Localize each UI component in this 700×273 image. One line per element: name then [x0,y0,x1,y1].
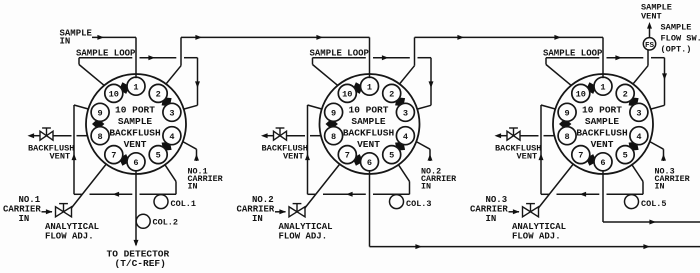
svg-text:10: 10 [342,90,352,100]
svg-text:COL.2: COL.2 [153,217,179,227]
wire: analytical valve to port 7 (V1) [71,164,106,208]
svg-text:BACKFLUSH: BACKFLUSH [109,128,161,139]
flow arrow sample in [97,35,104,40]
svg-text:8: 8 [565,132,570,142]
svg-text:VENT: VENT [124,139,147,150]
analytical flow adj valve (V3) [523,207,539,217]
wire: carrier in to analytical valve (V3) [509,211,520,213]
port 10 of V1 [105,84,123,102]
label NO.2 CARRIER IN (right of V2) [421,166,457,191]
column COL.2 symbol [136,214,150,228]
port 3 of V1 [163,103,181,121]
svg-text:1: 1 [133,82,138,92]
wire: column/backflush return run (V1) [74,193,176,195]
svg-text:FLOW ADJ.: FLOW ADJ. [512,232,561,242]
wire: carrier in to analytical valve (V2) [275,211,286,213]
svg-text:6: 6 [133,158,138,168]
port 7 of V1 [105,146,123,164]
svg-text:VENT: VENT [50,151,71,161]
svg-text:CARRIER: CARRIER [237,204,275,214]
port 2 of V3 [616,84,634,102]
svg-text:COL.5: COL.5 [641,199,667,209]
svg-text:4: 4 [169,132,174,142]
wire: carrier stub into port 4 (V2) [416,142,430,161]
rotor channel wedges V1 (ports 10-1, 2-3, 4-5, 6-7, 8-9) [92,82,172,166]
backflush vent valve (V1) [40,131,53,140]
svg-text:SAMPLE: SAMPLE [351,116,386,127]
sample flow switch FS (U-FS) [643,38,655,50]
svg-text:IN: IN [252,214,263,224]
wire: column/backflush return run (V2) [308,193,410,195]
label SAMPLE IN [60,28,93,46]
svg-text:8: 8 [98,132,103,142]
wire: carrier in to analytical valve (V1) [42,211,53,213]
flow arrow on sample loop (V1) [148,55,155,60]
flow arrow to detector [134,240,139,247]
flow arrow transfer line V2-V3 (second) [554,35,561,40]
wire: sample loop top run (V2) [313,57,432,59]
svg-text:ANALYTICAL: ANALYTICAL [45,222,99,232]
svg-text:FLOW ADJ.: FLOW ADJ. [45,232,94,242]
svg-text:SAMPLE LOOP: SAMPLE LOOP [543,48,603,58]
label NO.3 CARRIER IN (lower left of V3) [470,195,508,224]
svg-text:8: 8 [331,132,336,142]
svg-text:NO.3: NO.3 [486,195,508,205]
wire: port 2 riser to transfer line (V1) [166,37,181,84]
port 9 of V1 [91,103,109,121]
port 5 of V3 [616,146,634,164]
rotor channel wedges V3 (ports 10-1, 2-3, 4-5, 6-7, 8-9) [559,82,639,166]
analytical flow adj valve (V2) [289,207,305,217]
svg-text:BACKFLUSH: BACKFLUSH [576,128,628,139]
flow arrow into port 3 (V1) [195,81,200,88]
flow arrow to backflush vent (V2) [261,133,268,138]
flow arrow transfer line V1-V2 (first) [195,35,202,40]
wire: sample loop left leg from port 10 (V1) [79,58,104,86]
svg-text:SAMPLE: SAMPLE [118,116,153,127]
port 7 of V2 [338,146,356,164]
svg-text:SAMPLE: SAMPLE [585,116,620,127]
port 1 of V2 [361,77,379,95]
flow arrow on sample loop (V3) [615,55,622,60]
svg-text:5: 5 [389,151,394,161]
valve V1 label text [109,105,161,151]
port 5 of V1 [149,146,167,164]
rotor channel wedges V2 (ports 10-1, 2-3, 4-5, 6-7, 8-9) [326,82,406,166]
svg-text:4: 4 [403,132,408,142]
wire: FS up to sample vent [649,26,651,38]
wire: sample loop left leg from port 10 (V2) [313,58,338,86]
flow arrow carrier into port 4 (V1) [194,154,199,161]
flow arrow up left riser (V2) [305,154,310,161]
svg-text:2: 2 [623,90,628,100]
svg-text:(T/C-REF): (T/C-REF) [115,258,166,269]
svg-text:NO.1: NO.1 [19,195,41,205]
svg-text:5: 5 [623,151,628,161]
label BACKFLUSH VENT (V2) [262,143,308,161]
flow arrow transfer line V2-V3 (first) [457,35,464,40]
port 4 of V3 [630,127,648,145]
port 6 of V1 [127,153,145,171]
wire: V2 port 6 outlet run [370,171,700,247]
wire: left riser to port 9 (V3) [541,105,555,194]
svg-text:FS: FS [645,42,655,50]
flow arrow to backflush vent (V1) [28,133,35,138]
svg-text:SAMPLE LOOP: SAMPLE LOOP [76,48,136,58]
port 3 of V2 [396,103,414,121]
flow arrow up left riser (V3) [539,154,544,161]
wire: loop drop into port 3 (V2) [417,58,431,109]
label NO.2 CARRIER IN (lower left of V2) [237,195,275,224]
valve V2 label text [343,105,395,151]
wire: transfer line V1 to V2 [181,36,370,38]
svg-text:ANALYTICAL: ANALYTICAL [279,222,333,232]
label TO DETECTOR (T/C-REF) [107,248,170,269]
port 2 of V1 [149,84,167,102]
column COL.5 symbol [625,195,639,209]
svg-text:1: 1 [367,82,372,92]
wire: carrier stub into port 4 (V3) [650,142,664,161]
flow arrow V3 outlet [649,220,656,225]
svg-text:1: 1 [600,82,605,92]
port 10 of V3 [572,84,590,102]
wire: feed down into port 1 (V2) [369,37,371,78]
label SAMPLE FLOW SW. (OPT.) [661,22,700,54]
svg-text:9: 9 [98,108,103,118]
flow arrow to backflush vent (V3) [495,133,502,138]
wire: loop drop into port 3 (V1) [184,58,198,109]
label NO.1 CARRIER IN (right of V1) [188,166,224,191]
svg-text:IN: IN [60,36,71,46]
svg-text:SAMPLE LOOP: SAMPLE LOOP [310,48,370,58]
wire: feed down into port 1 (V3) [602,37,604,78]
svg-text:10 PORT: 10 PORT [349,105,389,116]
svg-text:VENT: VENT [641,12,662,22]
flow arrow carrier into port 4 (V3) [661,154,666,161]
port 8 of V1 [91,127,109,145]
svg-text:ANALYTICAL: ANALYTICAL [512,222,566,232]
svg-text:CARRIER: CARRIER [470,204,508,214]
column COL.3 symbol [390,195,404,209]
flow arrow on return run (V1) [113,192,120,197]
flow arrow carrier into port 4 (V2) [428,154,433,161]
svg-text:7: 7 [578,151,583,161]
svg-text:BACKFLUSH: BACKFLUSH [343,128,395,139]
wire: feed down into port 1 (V1) [135,37,137,78]
wire: analytical valve to port 7 (V3) [538,164,573,208]
port 7 of V3 [572,146,590,164]
flow arrow on return run (V2) [346,192,353,197]
wire: port 8 to backflush vent valve (V2) [267,135,321,137]
label ANALYTICAL FLOW ADJ. (V3) [512,222,566,242]
valve V3 label text [576,105,628,151]
flow arrow into port 3 (V2) [429,81,434,88]
wire: sample loop top run (V3) [546,57,665,59]
flow arrow on sample loop (V2) [382,55,389,60]
label SAMPLE VENT [641,3,672,22]
wire: column/backflush return run (V3) [541,193,643,195]
wire: port 2 riser to transfer line (V2) [400,37,415,84]
flow arrow into analytical valve (V2) [279,209,286,214]
svg-text:IN: IN [421,182,431,192]
svg-text:IN: IN [486,214,497,224]
port 6 of V3 [594,153,612,171]
flow arrow on return run (V3) [580,192,587,197]
svg-text:(OPT.): (OPT.) [661,44,692,54]
svg-text:COL.3: COL.3 [406,199,432,209]
wire: V3 port 6 outlet run [603,171,700,222]
svg-text:10: 10 [576,90,586,100]
port 6 of V2 [361,153,379,171]
flow arrow into port 3 (V3) [662,73,667,80]
svg-text:VENT: VENT [283,151,304,161]
svg-text:10: 10 [109,90,119,100]
port 8 of V3 [558,127,576,145]
column COL.1 symbol [154,195,168,209]
svg-text:9: 9 [331,108,336,118]
flow arrow sample vent [647,22,652,29]
svg-text:6: 6 [367,158,372,168]
port 1 of V1 [127,77,145,95]
wire: carrier stub into port 4 (V1) [183,142,197,161]
flow arrow V2 outlet (second) [643,244,650,249]
svg-text:10 PORT: 10 PORT [115,105,155,116]
svg-text:NO.2: NO.2 [252,195,274,205]
svg-text:10 PORT: 10 PORT [582,105,622,116]
svg-text:COL.1: COL.1 [171,199,197,209]
port 10 of V2 [338,84,356,102]
svg-text:SAMPLE: SAMPLE [661,22,692,32]
wire: sample loop top run (V1) [79,57,198,59]
wire: sample in line to V1 port 1 [92,36,136,38]
flow arrow up left riser (V1) [72,154,77,161]
port 3 of V3 [630,103,648,121]
valve V1 rotor body (10-port circle) [86,74,186,174]
port 9 of V3 [558,103,576,121]
svg-text:7: 7 [345,151,350,161]
wire: loop drop into port 3 (V3) [651,58,665,109]
wire: port 8 to backflush vent valve (V1) [34,135,88,137]
svg-text:CARRIER: CARRIER [3,204,41,214]
label NO.1 CARRIER IN (lower left of V1) [3,195,41,224]
svg-text:7: 7 [111,151,116,161]
svg-text:VENT: VENT [357,139,380,150]
wire: port 5 to column line (V2) [399,165,410,195]
flow arrow transfer line V1-V2 (second) [316,35,323,40]
backflush vent valve (V2) [274,131,287,140]
wire: port 8 to backflush vent valve (V3) [501,135,555,137]
analytical flow adj valve (V1) [56,207,72,217]
port 4 of V1 [163,127,181,145]
flow arrow into analytical valve (V1) [46,209,53,214]
port 5 of V2 [383,146,401,164]
wire: port 2 riser to sample flow switch (V3) [633,50,648,84]
flow arrow into analytical valve (V3) [513,209,520,214]
port 1 of V3 [594,77,612,95]
wire: transfer line V2 to V3 [415,36,604,38]
wire: analytical valve to port 7 (V2) [305,164,340,208]
svg-text:6: 6 [600,158,605,168]
label BACKFLUSH VENT (V1) [28,143,74,161]
svg-text:IN: IN [188,182,198,192]
svg-text:3: 3 [636,108,641,118]
port 4 of V2 [396,127,414,145]
wire: V1 port 6 to detector [135,171,137,245]
svg-text:VENT: VENT [517,151,538,161]
svg-text:IN: IN [655,182,665,192]
svg-text:2: 2 [389,90,394,100]
port 2 of V2 [383,84,401,102]
svg-text:FLOW ADJ.: FLOW ADJ. [279,232,328,242]
wire: left riser to port 9 (V1) [74,105,88,194]
wire: sample loop left leg from port 10 (V3) [546,58,571,86]
backflush vent valve (V3) [507,131,520,140]
svg-text:3: 3 [403,108,408,118]
port 8 of V2 [325,127,343,145]
valve V2 rotor body (10-port circle) [320,74,420,174]
wire: port 5 to column line (V3) [632,165,643,195]
svg-text:3: 3 [169,108,174,118]
flow arrow V2 outlet (first) [415,244,422,249]
label BACKFLUSH VENT (V3) [495,143,541,161]
svg-text:9: 9 [565,108,570,118]
label ANALYTICAL FLOW ADJ. (V2) [279,222,333,242]
svg-text:FLOW SW.: FLOW SW. [661,33,700,43]
port 9 of V2 [325,103,343,121]
label ANALYTICAL FLOW ADJ. (V1) [45,222,99,242]
wire: port 5 to column line (V1) [165,165,176,195]
wire: left riser to port 9 (V2) [308,105,322,194]
svg-text:5: 5 [156,151,161,161]
svg-text:2: 2 [156,90,161,100]
svg-text:VENT: VENT [591,139,614,150]
svg-text:IN: IN [19,214,30,224]
label NO.3 CARRIER IN (right of V3) [655,166,691,191]
valve V3 rotor body (10-port circle) [553,74,653,174]
svg-text:4: 4 [636,132,641,142]
